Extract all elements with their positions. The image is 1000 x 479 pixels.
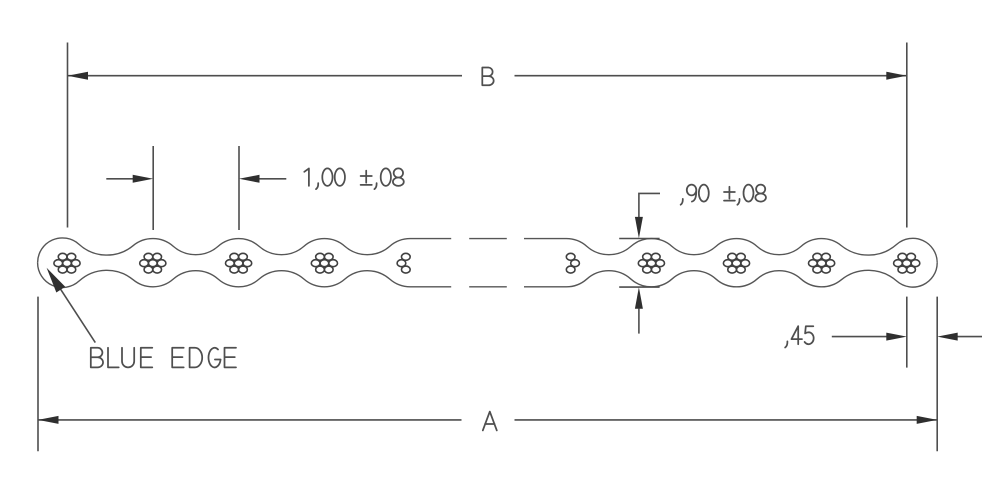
conductor 4 (7-strand wire) (311, 253, 337, 273)
dim A: right arrowhead (917, 416, 938, 424)
dim ,45: right extension line (cable edge) / dim A right extension (936, 297, 938, 452)
conductor 8 (7-strand wire) (894, 253, 920, 273)
dim ,90: top arrowhead (down) (635, 217, 643, 239)
dim B: dimension line (68, 75, 463, 77)
ribbon cable outline: bottom edge, right half (524, 263, 937, 287)
conductor 6 (7-strand wire) (723, 253, 749, 273)
conductor 7 (7-strand wire) (809, 253, 835, 273)
dim A: left arrowhead (38, 416, 59, 424)
dim A: left extension line (37, 297, 39, 452)
dim ,90: top tick at ribbon top (619, 238, 659, 240)
ribbon cable outline: top edge, left half (38, 238, 452, 263)
dim ,90: bottom tick at ribbon bottom (619, 286, 659, 288)
ribbon cable outline: bottom edge, left half (38, 263, 452, 288)
dim B: left extension line (67, 43, 69, 228)
dim 1,00: right extension line (238, 146, 240, 230)
partial conductor at left break (397, 253, 410, 273)
label 1,00 +/-,08 (304, 168, 404, 189)
label BLUE EDGE (91, 348, 236, 368)
dim 1,00: left arrowhead (133, 175, 154, 183)
dim ,90: bottom arrow shaft (638, 309, 640, 334)
dim ,90: bottom arrowhead (up) (635, 287, 643, 309)
break dash, top edge (469, 238, 507, 240)
break dash, bottom edge (469, 286, 507, 288)
dim ,45: right arrowhead (937, 333, 958, 341)
BLUE EDGE leader line (60, 288, 96, 343)
dim ,45: left arrowhead (886, 333, 907, 341)
dim ,45: right arrow shaft (957, 336, 982, 338)
conductor 5 (7-strand wire) (638, 253, 664, 273)
partial conductor at right break (566, 253, 579, 273)
dim B: right arrowhead (886, 72, 907, 80)
conductor 1 (7-strand wire) (54, 253, 80, 273)
label ,45 (785, 326, 814, 347)
dim 1,00: left arrow shaft (106, 178, 133, 180)
conductor 3 (7-strand wire) (226, 253, 252, 273)
conductor 2 (7-strand wire) (140, 253, 166, 273)
dim B: right extension line (906, 43, 908, 228)
BLUE EDGE arrowhead (47, 268, 66, 293)
label A (483, 412, 497, 431)
dim 1,00: right arrowhead (239, 175, 260, 183)
dim ,45: left arrow shaft (832, 336, 887, 338)
label ,90 +/-,08 (681, 185, 766, 205)
dim ,45: left extension line (conductor center) (906, 297, 908, 368)
dim 1,00: right arrow shaft (259, 178, 287, 180)
ribbon cable outline: top edge, right half (524, 238, 937, 262)
dim B: left arrowhead (68, 72, 89, 80)
dim A: dimension line (38, 419, 462, 421)
label B (482, 68, 493, 86)
dim ,90: leader elbow (639, 193, 660, 217)
dim 1,00: left extension line (152, 146, 154, 230)
